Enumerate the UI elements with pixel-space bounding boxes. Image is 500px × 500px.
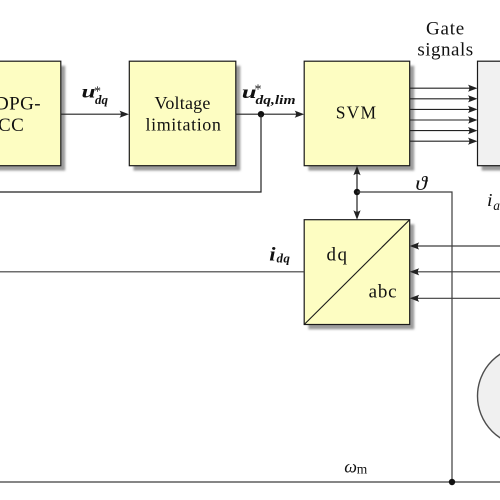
svg-text:dq: dq [277, 251, 291, 266]
wire i_dq output to left [0, 271, 304, 273]
svg-text:dq,lim: dq,lim [256, 92, 296, 107]
svg-text:Gate: Gate [426, 19, 465, 40]
svg-text:CC: CC [0, 115, 24, 136]
svg-text:i: i [487, 190, 493, 210]
block U1 DPG-CC controller (cut off at left edge) [0, 61, 65, 170]
label i_a [487, 190, 500, 213]
svg-text:SVM: SVM [336, 102, 378, 122]
junction dot at u*_dq,lim branch [258, 111, 264, 117]
junction dot omega [449, 479, 455, 485]
svg-text:limitation: limitation [146, 115, 222, 135]
junction dot theta [354, 189, 360, 195]
motor M1 circle (cut off at right edge) [478, 346, 500, 446]
label u*_dq,lim [242, 82, 296, 107]
svg-text:dq: dq [327, 245, 349, 266]
block U5 dq/abc transform [304, 220, 414, 330]
label u*_dq [82, 82, 109, 108]
phase current wires into U5 (3 arrows from right) [416, 246, 500, 298]
svg-text:abc: abc [369, 282, 398, 303]
wire theta vertical between U3 and U5 [356, 172, 358, 214]
wire theta horizontal to sensor line [357, 192, 452, 482]
svg-text:Voltage: Voltage [154, 93, 210, 113]
svg-text:ϑ: ϑ [415, 173, 428, 195]
svg-text:DPG-: DPG- [0, 94, 41, 115]
svg-text:dq: dq [95, 92, 109, 107]
block U4 inverter (gray, cut off at right edge) [478, 61, 500, 170]
wire u*_dq from U1 to U2 [61, 113, 123, 115]
arrowhead into U3 [295, 111, 305, 118]
arrowhead into U2 [120, 111, 130, 118]
label i_dq [269, 245, 290, 266]
wire anti-windup feedback down from junction [0, 114, 261, 192]
svg-text:i: i [269, 245, 276, 266]
gate signal wires U3 to U4 (6 arrows) [410, 88, 472, 141]
svg-text:a: a [493, 198, 500, 213]
svg-text:signals: signals [417, 40, 473, 61]
arrowhead down into U5 [353, 210, 360, 220]
wire omega_m bottom line [0, 481, 500, 483]
block U2 Voltage limitation [129, 61, 240, 170]
arrowhead up into U3 [353, 166, 360, 176]
svg-text:m: m [357, 462, 368, 477]
label omega_m [344, 457, 368, 477]
svg-text:ω: ω [344, 457, 357, 477]
diagonal of dq/abc block [304, 220, 410, 325]
block U3 SVM [304, 61, 414, 170]
wire u*_dq,lim from U2 to U3 [236, 113, 298, 115]
